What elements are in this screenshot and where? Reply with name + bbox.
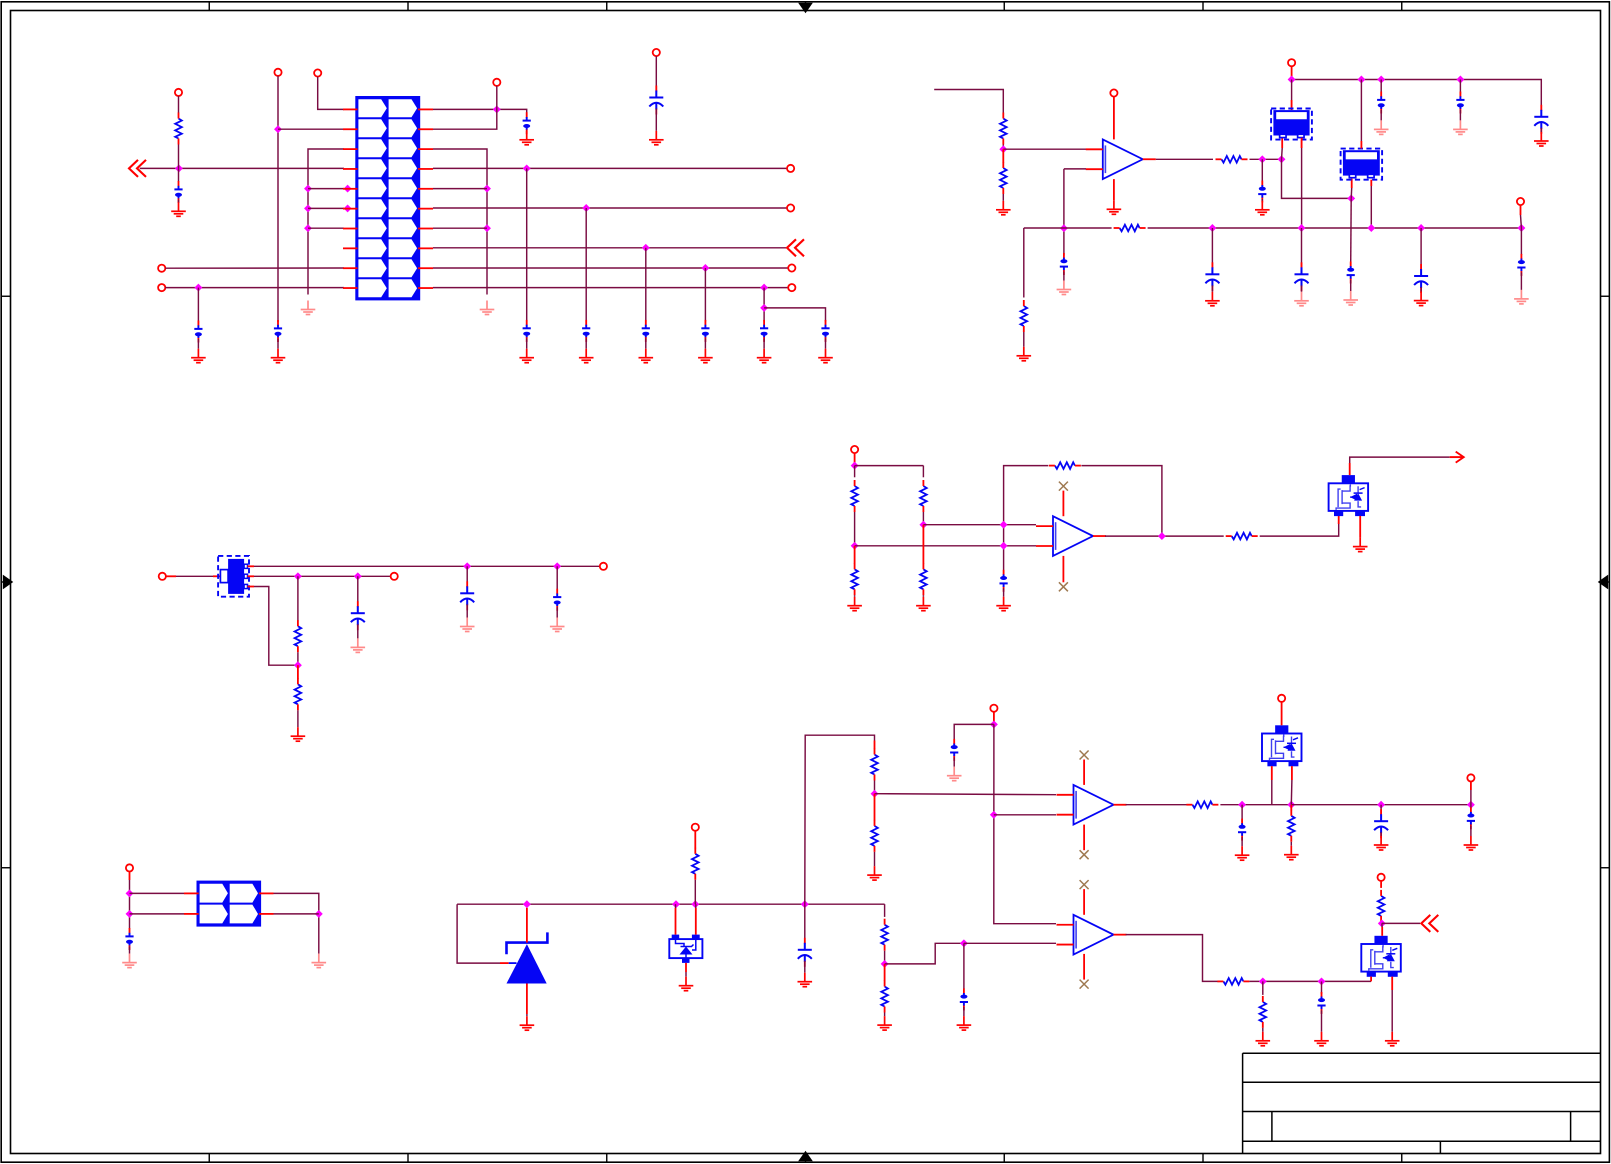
junction — [483, 224, 491, 232]
ground — [1107, 200, 1122, 214]
pin stub J2 right — [259, 892, 274, 894]
wire — [274, 893, 319, 953]
U8 V- pin — [1083, 954, 1085, 980]
wire — [297, 710, 299, 727]
power ground — [1374, 120, 1389, 134]
D2 pin1 wire — [675, 908, 677, 935]
terminal — [274, 69, 281, 76]
junction — [801, 900, 809, 908]
terminal — [493, 79, 500, 86]
junction — [691, 900, 699, 908]
wire — [1321, 981, 1323, 994]
junction — [1378, 919, 1386, 927]
pin stub J1 right 4 — [418, 168, 433, 170]
junction — [274, 125, 282, 133]
wire row8 long — [433, 247, 786, 249]
terminal — [787, 204, 794, 211]
wire — [1250, 158, 1282, 160]
resistor R22 — [1217, 978, 1249, 985]
ground — [271, 349, 286, 363]
wire — [655, 109, 657, 131]
D1 ref stub — [500, 962, 509, 964]
junction — [1298, 224, 1306, 232]
terminal — [1110, 89, 1117, 96]
pin stub J1 left 8 — [343, 247, 358, 249]
ground — [798, 973, 813, 987]
junction — [1278, 155, 1286, 163]
power ground — [312, 954, 327, 968]
wire net row2 vert — [277, 76, 279, 322]
resistor R21 — [1288, 810, 1295, 842]
wire — [1382, 922, 1420, 924]
ground — [996, 597, 1011, 611]
capacitor C18 — [1211, 262, 1213, 268]
wire net row4 — [140, 167, 344, 169]
D1 anode wire — [526, 984, 528, 1015]
wire — [1350, 198, 1353, 264]
capacitor C25 — [553, 589, 561, 611]
U2 pin to bus — [1301, 141, 1303, 229]
op-amp U7 — [1057, 785, 1127, 825]
U2 regulator pin — [1281, 138, 1283, 148]
U6 pin3 — [248, 586, 255, 588]
U3 VIN pin — [1360, 80, 1362, 142]
resistor R16 — [871, 749, 878, 781]
capacitor C5 — [523, 320, 531, 342]
wire — [1520, 228, 1522, 255]
wire — [764, 308, 825, 322]
terminal — [990, 705, 997, 712]
wire — [357, 576, 359, 607]
wire row9 long — [433, 267, 788, 269]
wire row10 left — [165, 287, 344, 289]
junction — [582, 204, 590, 212]
wire — [885, 943, 964, 964]
wire — [994, 724, 1056, 923]
wire row7 right — [433, 227, 487, 229]
wire — [129, 872, 131, 881]
wire — [1459, 110, 1461, 120]
wire row9 left — [165, 267, 344, 269]
wire — [1540, 128, 1542, 132]
junction — [354, 572, 362, 580]
Q2 drain wire — [1281, 702, 1283, 725]
terminal — [391, 573, 398, 580]
wire — [556, 607, 558, 617]
off-page connector IN1 — [129, 160, 146, 177]
R17 lead — [874, 794, 876, 821]
pin stub J1 left 10 — [343, 287, 358, 289]
junction — [1208, 224, 1216, 232]
capacitor C29 — [960, 988, 968, 1010]
U6 pin2 — [248, 575, 255, 577]
wire — [855, 465, 924, 467]
wire — [197, 339, 199, 349]
wire — [922, 512, 924, 525]
capacitor C33 — [1317, 992, 1325, 1014]
Q3 drain wire — [1381, 927, 1383, 936]
junction — [919, 521, 927, 529]
wire — [854, 466, 856, 478]
Q2 gate wire — [1271, 766, 1273, 780]
wire — [993, 712, 995, 725]
capacitor C20 — [1420, 264, 1422, 270]
junction — [1377, 801, 1385, 809]
capacitor C23 — [357, 601, 359, 607]
Q3 source wire — [1391, 977, 1393, 990]
terminal — [788, 284, 795, 291]
pin stub J2 left — [184, 913, 199, 915]
op-amp U5 — [1036, 516, 1106, 556]
ground — [1284, 846, 1299, 860]
pin stub J1 left 9 — [343, 267, 358, 269]
wire — [884, 951, 886, 964]
no-connect — [1059, 482, 1068, 491]
ground — [698, 349, 713, 363]
junction — [701, 264, 709, 272]
capacitor C32 — [1467, 807, 1475, 829]
wire row3 right bus — [433, 149, 487, 295]
junction — [990, 720, 998, 728]
wire — [526, 130, 528, 133]
junction — [1467, 801, 1475, 809]
ground — [1314, 1032, 1329, 1046]
wire row6 left — [308, 207, 344, 209]
junction — [760, 304, 768, 312]
wire mid bus — [1148, 227, 1522, 229]
capacitor C14 — [1347, 262, 1355, 284]
ground — [519, 131, 534, 145]
wire — [963, 943, 965, 989]
wire row1 right — [433, 109, 527, 115]
capacitor C21 — [1517, 254, 1525, 276]
wire mid bus — [1024, 227, 1112, 229]
capacitor C22 — [1000, 570, 1008, 592]
wire — [466, 604, 468, 617]
junction — [1347, 194, 1355, 202]
junction — [315, 910, 323, 918]
wire — [1470, 826, 1472, 836]
junction — [960, 939, 968, 947]
capacitor C1 — [174, 181, 182, 203]
no-connect — [1080, 751, 1089, 760]
junction — [304, 185, 312, 193]
wire — [805, 735, 875, 904]
pin stub J1 right 9 — [418, 267, 433, 269]
wire — [1063, 272, 1065, 281]
wire — [763, 338, 765, 348]
terminal — [788, 264, 795, 271]
power ground — [1343, 291, 1358, 305]
op-amp U8 — [1057, 915, 1127, 955]
wire — [1291, 66, 1293, 79]
wire to +in — [1003, 148, 1086, 150]
op-amp U1 — [1086, 139, 1156, 179]
dual diode D2 — [669, 935, 702, 963]
wire — [1220, 804, 1291, 806]
ground — [1464, 836, 1479, 850]
terminal — [175, 89, 182, 96]
junction — [304, 224, 312, 232]
wire — [277, 339, 279, 349]
wire — [297, 652, 299, 665]
power ground — [460, 618, 475, 632]
pin stub J1 right 6 — [418, 208, 433, 210]
ground — [877, 1016, 892, 1030]
terminal — [1517, 198, 1524, 205]
pin stub J1 left 7 — [343, 228, 358, 230]
D1 cathode wire — [526, 908, 528, 943]
junction — [463, 562, 471, 570]
wire — [1249, 980, 1371, 982]
wire ref loop — [457, 904, 500, 963]
wire U8 -in — [964, 942, 1056, 944]
U2 regulator VIN pin — [1291, 80, 1293, 109]
terminal — [653, 49, 660, 56]
resistor R3 — [1000, 162, 1007, 194]
ground — [916, 597, 931, 611]
capacitor C17 — [1540, 105, 1542, 111]
D2 pin2 wire — [695, 908, 697, 935]
resistor R5 — [1114, 225, 1146, 232]
wire — [694, 880, 696, 904]
pin stub J1 right 8 — [418, 247, 433, 249]
R16 lead — [874, 741, 876, 750]
wire — [804, 961, 806, 973]
wire — [556, 566, 558, 590]
ground — [1235, 846, 1250, 860]
resistor R12 — [1226, 533, 1258, 540]
ground — [649, 131, 664, 145]
wire — [1380, 832, 1382, 836]
wire — [1520, 205, 1522, 215]
wire — [1282, 148, 1352, 198]
wire net row3 left bus — [308, 149, 344, 295]
wire — [526, 338, 528, 348]
resistor R24 — [1378, 890, 1385, 922]
resistor R10 — [920, 563, 927, 595]
ground — [520, 1016, 535, 1030]
wire net row1 — [318, 77, 344, 110]
Q1 drain wire — [1349, 463, 1351, 475]
wire — [874, 781, 876, 794]
capacitor C24 — [466, 581, 468, 587]
wire — [1023, 332, 1025, 347]
ground — [1255, 201, 1270, 215]
power ground — [550, 618, 565, 632]
pin stub J1 left 4 — [343, 168, 358, 170]
R21 lead — [1290, 805, 1292, 811]
wire — [1380, 110, 1382, 120]
capacitor C19 — [1301, 262, 1303, 268]
junction — [1158, 532, 1166, 540]
no-connect — [1080, 880, 1089, 889]
wire — [178, 200, 180, 203]
resistor R1 — [175, 113, 182, 145]
capacitor C28 — [950, 739, 958, 761]
wire — [1301, 285, 1303, 292]
ground — [847, 597, 862, 611]
ground — [1534, 132, 1549, 146]
R3 lead — [1002, 149, 1004, 162]
power ground — [1514, 290, 1529, 304]
ground — [957, 1016, 972, 1030]
wire — [1241, 805, 1243, 822]
resistor R17 — [871, 820, 878, 852]
U5 V+ pin — [1062, 491, 1064, 517]
wire — [1023, 228, 1025, 298]
wire — [922, 466, 924, 478]
wire U1 -in — [1064, 168, 1086, 170]
wire feedback — [1081, 466, 1162, 536]
terminal — [126, 864, 133, 871]
wire — [884, 1013, 886, 1017]
wire — [178, 168, 180, 181]
pin stub J1 left 3 — [343, 148, 358, 150]
junction — [1287, 801, 1295, 809]
junction — [523, 900, 531, 908]
capacitor C13 — [1258, 181, 1266, 203]
junction — [294, 572, 302, 580]
wire row7 left — [308, 227, 344, 229]
wire U5 +in — [923, 524, 1036, 526]
wire — [1261, 199, 1263, 201]
terminal — [1278, 695, 1285, 702]
wire — [466, 566, 468, 587]
capacitor C6 — [582, 320, 590, 342]
wire — [254, 587, 298, 666]
wire feedback — [1004, 466, 1049, 570]
U6 pin1 — [248, 565, 255, 567]
ground — [1374, 836, 1389, 850]
pin stub J1 right 1 — [418, 108, 433, 110]
wire — [1241, 837, 1243, 846]
MOSFET Q1 — [1329, 475, 1369, 516]
wire — [1063, 169, 1065, 256]
resistor R14 — [295, 678, 302, 710]
pin stub J2 right — [259, 913, 274, 915]
power ground — [480, 301, 495, 315]
wire — [526, 168, 528, 321]
junction — [1377, 76, 1385, 84]
ground — [1385, 1032, 1400, 1046]
wire — [655, 56, 657, 91]
ground — [1353, 538, 1368, 552]
capacitor C7 — [642, 320, 650, 342]
ground — [996, 201, 1011, 215]
pin stub J1 right 3 — [418, 148, 433, 150]
terminal — [159, 573, 166, 580]
junction — [1258, 155, 1266, 163]
wire — [704, 268, 706, 322]
wire — [884, 904, 886, 917]
junction — [871, 790, 879, 798]
junction — [672, 900, 680, 908]
ground — [757, 349, 772, 363]
ground — [1256, 1032, 1271, 1046]
resistor R8 — [851, 563, 858, 595]
wire — [129, 880, 131, 929]
junction — [194, 284, 202, 292]
terminal — [692, 824, 699, 831]
wire ref bus — [457, 903, 884, 905]
junction — [1367, 224, 1375, 232]
wire — [297, 576, 299, 620]
junction — [304, 204, 312, 212]
junction — [553, 562, 561, 570]
wire — [954, 724, 994, 739]
wire U8 out — [1126, 935, 1219, 982]
wire — [1420, 287, 1422, 292]
off-page arrow OUT2 — [1450, 452, 1464, 463]
wire U7 -in — [994, 814, 1056, 816]
ground — [171, 202, 186, 216]
U1 V- pin — [1113, 179, 1115, 200]
resistor R19 — [881, 981, 888, 1013]
R19 lead — [884, 964, 886, 981]
wire row5 right — [433, 188, 487, 190]
pin stub J1 left 6 — [343, 208, 358, 210]
U8 V+ pin — [1083, 889, 1085, 915]
ground — [291, 727, 306, 741]
wire — [1321, 1010, 1323, 1031]
wire — [357, 624, 359, 638]
power ground — [947, 767, 962, 781]
ground — [639, 349, 654, 363]
no-connect — [1080, 980, 1089, 989]
connector J2 (4-pin) — [197, 881, 262, 927]
capacitor C27 — [804, 938, 806, 944]
capacitor C30 — [1238, 819, 1246, 841]
MOSFET Q3 — [1361, 936, 1401, 977]
junction — [1357, 76, 1365, 84]
wire — [1380, 80, 1382, 95]
terminal — [851, 446, 858, 453]
off-page connector OUT1 — [787, 239, 804, 256]
ground — [519, 349, 534, 363]
terminal — [1378, 874, 1385, 881]
pin stub J2 left — [184, 892, 199, 894]
wire — [1459, 80, 1461, 95]
junction — [344, 204, 352, 212]
pin stub J1 left 5 — [343, 188, 358, 190]
wire — [1260, 522, 1339, 536]
MOSFET Q2 — [1262, 725, 1302, 766]
wire — [854, 453, 856, 466]
junction — [1417, 224, 1425, 232]
ground — [679, 977, 694, 991]
capacitor C4 — [523, 112, 531, 134]
power ground — [1294, 292, 1309, 306]
wire — [1350, 188, 1353, 198]
resistor R4 — [1216, 156, 1248, 163]
junction — [1060, 224, 1068, 232]
Q3 gate wire — [1370, 977, 1372, 982]
junction — [126, 910, 134, 918]
U5 V- pin — [1062, 556, 1064, 582]
wire — [274, 913, 319, 915]
pin stub J1 right 10 — [418, 287, 433, 289]
pin stub J1 right 7 — [418, 228, 433, 230]
wire bus2 — [1291, 804, 1471, 806]
terminal — [158, 265, 165, 272]
wire — [178, 96, 180, 113]
power ground — [301, 301, 316, 315]
junction — [175, 164, 183, 172]
resistor R13 — [295, 620, 302, 652]
no-connect — [1080, 850, 1089, 859]
pin stub J1 right 2 — [418, 128, 433, 130]
